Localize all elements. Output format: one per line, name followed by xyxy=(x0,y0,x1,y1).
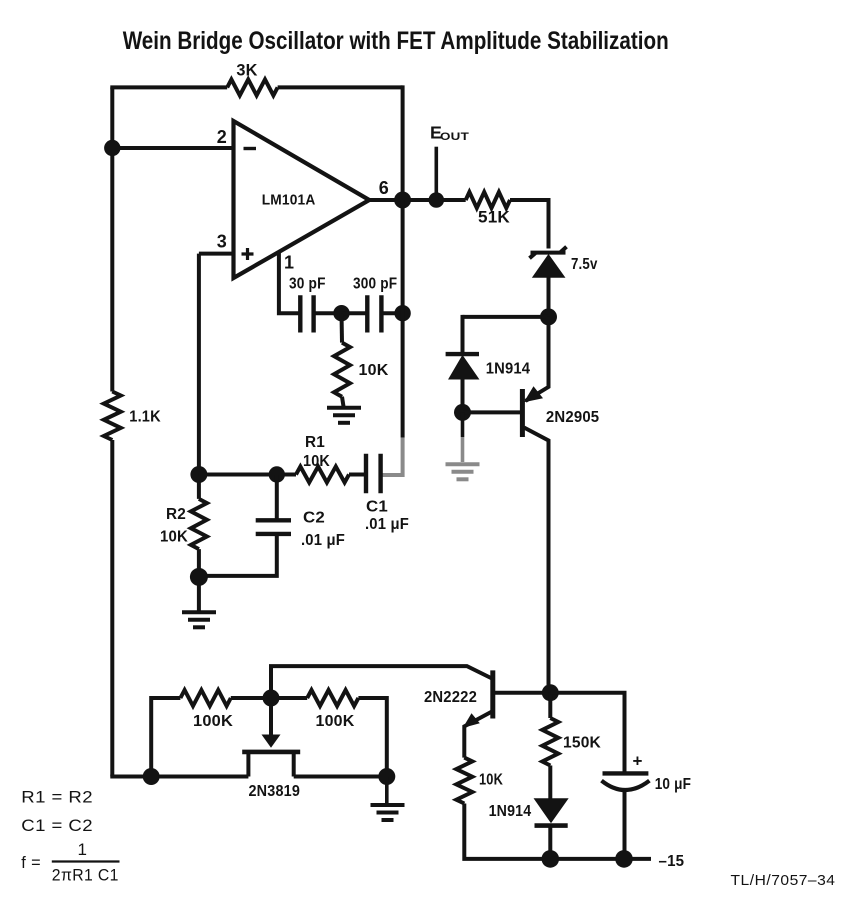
wire junction node to 1N914 branch xyxy=(463,315,549,319)
transistor Q3 2N3819 channel bar xyxy=(242,750,300,755)
svg-text:R1: R1 xyxy=(305,434,325,451)
svg-text:300 pF: 300 pF xyxy=(353,276,397,293)
wire gate node to 100K right xyxy=(271,696,307,700)
svg-text:2N2222: 2N2222 xyxy=(424,689,477,706)
transistor Q1 emitter arrow (PNP, pointing into base) xyxy=(524,386,543,402)
formula fraction bar xyxy=(52,860,120,862)
node feedback / 300pF junction xyxy=(394,305,410,321)
resistor R2 10K xyxy=(191,499,207,549)
transistor Q3 2N3819 gate lead and arrow xyxy=(269,698,273,737)
resistor 3K xyxy=(227,79,277,95)
ground below R2 xyxy=(182,610,216,614)
svg-text:.01 μF: .01 μF xyxy=(301,532,345,549)
diode 1N914 upper triangle (pointing up) xyxy=(449,356,479,379)
svg-text:.01 μF: .01 μF xyxy=(365,516,409,533)
svg-text:10K: 10K xyxy=(303,453,331,470)
transistor Q1 2N2905 base bar xyxy=(520,389,525,437)
transistor Q3 gate arrowhead (pointing down) xyxy=(262,735,281,748)
capacitor C3 10uF top plate xyxy=(603,771,649,775)
wire capacitor to rail xyxy=(623,791,627,859)
ground below compensation 10K xyxy=(327,406,361,410)
svg-text:100K: 100K xyxy=(316,713,355,730)
transistor Q2 2N2222 base bar xyxy=(490,670,495,718)
resistor 51K xyxy=(466,192,510,208)
node FET drain / ground junction xyxy=(378,768,395,785)
wire gate node up and across to 2N2222 base xyxy=(271,666,492,698)
wire feedback vertical faded segment down to C1 xyxy=(381,438,403,475)
wire 300pF to feedback line xyxy=(381,311,402,315)
svg-text:1N914: 1N914 xyxy=(486,361,531,378)
wire top feedback rail right of R 3K xyxy=(278,85,403,89)
wire feedback vertical down to output node xyxy=(401,85,405,200)
resistor 10K bottom xyxy=(456,758,472,804)
wire R1 row left segment xyxy=(199,473,296,477)
wire 150K to 1N914 bottom xyxy=(548,766,552,800)
svg-text:150K: 150K xyxy=(563,735,601,752)
wire op-amp output to 51K xyxy=(369,198,465,202)
wire 51K to zener corner xyxy=(510,200,549,249)
wire Eout stub xyxy=(434,147,438,200)
resistor 150K xyxy=(542,718,558,766)
zener diode D1 7.5v cathode bar xyxy=(530,247,567,258)
svg-text:f =: f = xyxy=(21,853,41,872)
wire left 100K branch vertical xyxy=(151,698,180,777)
svg-text:2N3819: 2N3819 xyxy=(249,783,301,800)
resistor 100K left xyxy=(180,690,230,706)
transistor Q1 collector wire down to 2N2222 node xyxy=(524,428,549,693)
svg-text:+: + xyxy=(633,752,643,771)
node compensation center junction xyxy=(333,305,349,321)
wire 1N914 to base node xyxy=(461,379,465,412)
wire 100K right down to drain node xyxy=(358,698,386,777)
wire non-inverting input (pin 3) horizontal xyxy=(199,252,234,256)
wire 10K bottom to rail corner xyxy=(464,804,550,859)
wire 100K left to gate node xyxy=(231,696,271,700)
node rail / 1N914 junction xyxy=(542,850,560,868)
wire pin 1 stub down xyxy=(279,251,300,313)
wire top feedback rail left of R 3K xyxy=(110,85,227,89)
op-amp non-inverting input plus sign xyxy=(242,248,254,260)
resistor R1 10K xyxy=(296,467,349,483)
wire R1 to C1 xyxy=(349,473,366,477)
svg-text:7.5v: 7.5v xyxy=(571,256,598,273)
wire pin-3 branch vertical down to R1/R2 node xyxy=(197,254,201,499)
svg-text:1.1K: 1.1K xyxy=(129,409,161,426)
wire collector node to capacitor branch xyxy=(550,693,624,772)
wire compensation 10K bottom lead xyxy=(342,397,344,407)
svg-text:–15: –15 xyxy=(659,853,685,870)
diode 1N914 bottom cathode bar xyxy=(535,823,568,828)
svg-text:R1 = R2: R1 = R2 xyxy=(21,788,93,807)
capacitor 300 pF plates xyxy=(367,295,381,332)
capacitor C2 plates xyxy=(256,520,291,534)
wire C2 bottom lead xyxy=(199,534,277,576)
transistor Q2 emitter arrowhead (NPN, pointing out) xyxy=(463,713,480,728)
svg-text:30 pF: 30 pF xyxy=(289,276,326,293)
wire zener to junction node xyxy=(547,277,551,317)
node rail / capacitor junction xyxy=(615,850,633,868)
wire bottom-left rail (left part) xyxy=(112,775,248,777)
svg-text:1N914: 1N914 xyxy=(489,803,532,820)
wire 30pF to center node xyxy=(314,311,342,315)
svg-text:10 μF: 10 μF xyxy=(655,776,691,793)
svg-text:R2: R2 xyxy=(166,506,186,523)
resistor 10K compensation xyxy=(334,343,350,397)
node R2 / C2 bottom junction xyxy=(190,568,208,586)
resistor 100K right xyxy=(307,690,358,706)
transistor Q1 emitter wire from zener node xyxy=(526,317,549,401)
svg-text:C1 = C2: C1 = C2 xyxy=(21,816,93,835)
transistor Q3 drain leg xyxy=(292,752,296,777)
wire top-left vertical (left rail top) xyxy=(110,87,114,391)
svg-text:2N2905: 2N2905 xyxy=(546,409,599,426)
svg-text:C2: C2 xyxy=(303,510,325,527)
svg-text:OUT: OUT xyxy=(440,131,469,143)
wire bottom rail right segment xyxy=(550,857,651,861)
capacitor C1 plates xyxy=(366,454,381,494)
node junction left rail / pin 2 xyxy=(104,140,120,156)
svg-text:10K: 10K xyxy=(359,362,389,379)
transistor Q2 collector wire to node xyxy=(493,691,551,695)
diode 1N914 bottom triangle (pointing down) xyxy=(535,799,568,823)
node Eout junction xyxy=(429,192,445,208)
svg-text:2πR1 C1: 2πR1 C1 xyxy=(52,866,119,885)
svg-text:3K: 3K xyxy=(236,61,257,79)
node output / feedback junction xyxy=(394,192,411,209)
svg-text:51K: 51K xyxy=(478,209,510,227)
wire 1N914 anode-side vertical xyxy=(461,315,465,355)
wire center node to 300pF xyxy=(342,311,368,315)
wire left rail below 1.1K xyxy=(110,440,114,777)
op-amp U1 LM101A triangle xyxy=(234,121,370,278)
transistor Q3 source leg xyxy=(246,752,250,777)
wire collector node to 150K xyxy=(548,693,552,718)
svg-text:3: 3 xyxy=(217,232,227,252)
svg-text:6: 6 xyxy=(379,178,389,198)
resistor 1.1K xyxy=(104,392,121,441)
svg-text:1: 1 xyxy=(284,252,294,272)
node C2 top junction xyxy=(269,466,285,482)
wire compensation 10K top lead xyxy=(340,313,345,342)
svg-text:TL/H/7057–34: TL/H/7057–34 xyxy=(731,872,836,889)
wire FET drain to ground node xyxy=(294,775,387,779)
ground below FET drain node xyxy=(371,803,405,807)
ground (faded) below 1N914 branch xyxy=(446,462,480,466)
transistor Q2 emitter wire diagonal xyxy=(464,712,492,758)
node zener / diode / emitter junction xyxy=(540,308,557,325)
svg-text:10K: 10K xyxy=(479,771,503,788)
node FET gate junction xyxy=(263,690,280,707)
svg-text:2: 2 xyxy=(217,127,227,147)
wire R2 bottom lead xyxy=(197,549,201,611)
capacitor C3 10uF curved plate xyxy=(602,781,650,790)
node left 100K branch junction xyxy=(143,768,160,785)
diode 1N914 upper cathode bar xyxy=(446,352,479,356)
node R2 / pin3 / R1 junction xyxy=(190,466,207,483)
svg-text:1: 1 xyxy=(78,840,88,859)
wire stem to ground below drain node xyxy=(385,777,389,804)
wire faded stem to ground below base node xyxy=(461,412,465,437)
zener diode D1 triangle xyxy=(533,255,565,277)
svg-text:10K: 10K xyxy=(160,529,189,546)
node 2N2222 collector junction xyxy=(542,684,559,701)
wire base node to 2N2905 base xyxy=(463,410,521,414)
capacitor 30 pF plates xyxy=(300,295,313,332)
svg-text:100K: 100K xyxy=(193,713,233,730)
node 1N914 / base junction xyxy=(454,404,471,421)
wire feedback vertical output node to C1 bend (upper black part) xyxy=(401,200,405,438)
op-amp inverting input minus sign xyxy=(244,147,257,150)
wire 1N914 bottom to rail xyxy=(548,826,552,859)
svg-text:Wein Bridge Oscillator with FE: Wein Bridge Oscillator with FET Amplitud… xyxy=(123,27,669,55)
svg-text:C1: C1 xyxy=(366,499,388,516)
svg-text:LM101A: LM101A xyxy=(262,193,316,209)
wire inverting input (pin 2) from left rail xyxy=(112,146,233,150)
wire C2 top lead xyxy=(275,475,279,521)
